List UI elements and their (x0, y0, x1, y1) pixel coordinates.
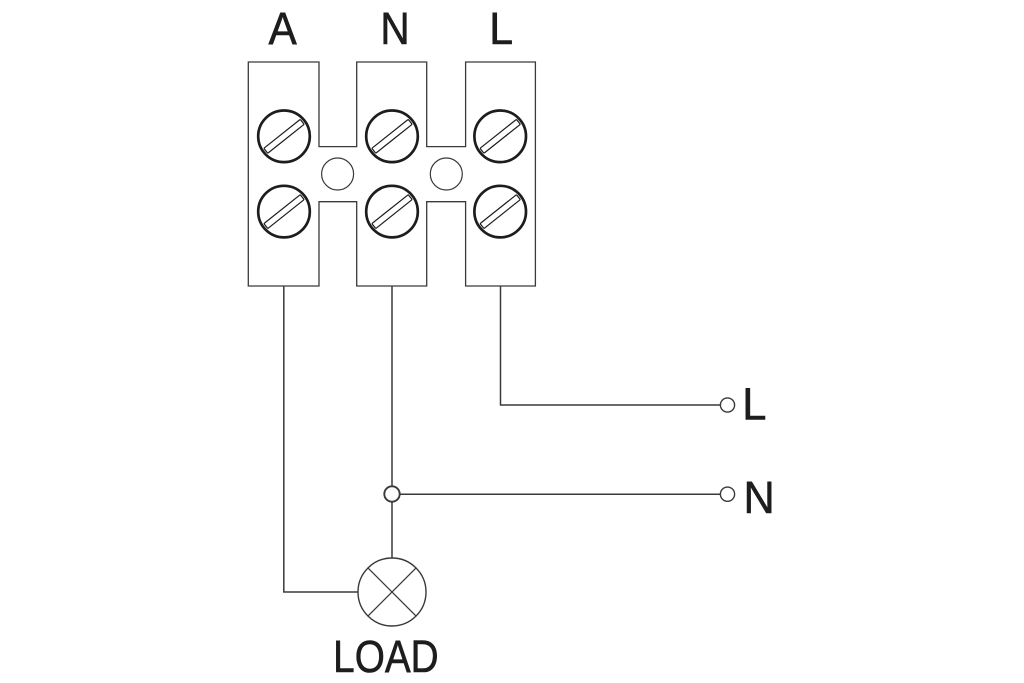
terminal block outline (248, 62, 535, 286)
wire N horizontal (junction to N terminal) (392, 493, 721, 495)
svg-text:N: N (380, 3, 409, 54)
terminal circle N (720, 487, 734, 501)
screw A top (258, 111, 310, 163)
svg-text:LOAD: LOAD (333, 631, 439, 682)
svg-text:L: L (742, 379, 766, 430)
svg-text:N: N (744, 472, 775, 523)
junction node N (384, 486, 399, 501)
mounting hole 2 (430, 158, 462, 190)
svg-text:A: A (269, 3, 298, 54)
screw L top (474, 111, 526, 163)
lamp LOAD (358, 558, 426, 626)
wire A (from terminal A down and right to lamp) (284, 286, 358, 592)
svg-text:L: L (489, 3, 513, 54)
wire N (from terminal N down to lamp top) (391, 286, 393, 558)
screw N bottom (366, 186, 418, 238)
terminal circle L (720, 398, 734, 412)
mounting hole 1 (322, 158, 354, 190)
screw A bottom (258, 186, 310, 238)
wire L (from terminal L down and right to L terminal) (501, 286, 721, 405)
screw L bottom (474, 186, 526, 238)
screw N top (366, 111, 418, 163)
